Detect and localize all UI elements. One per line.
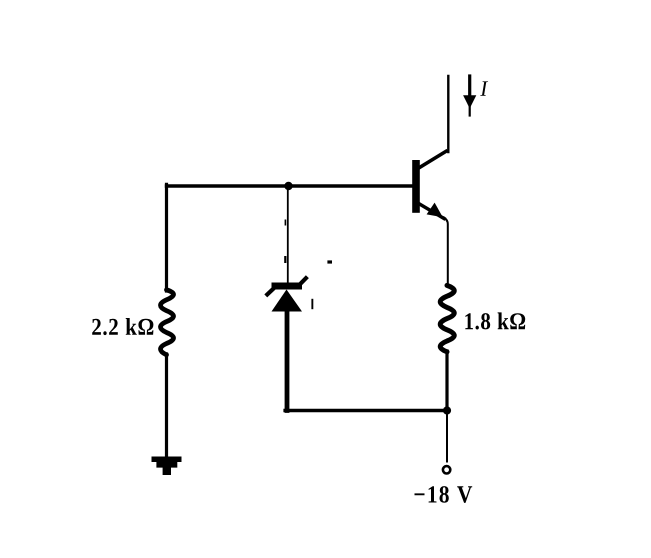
transistor Q1 collector diagonal bbox=[420, 151, 447, 167]
wire: small dash on zener wire lower bbox=[284, 256, 286, 263]
transistor Q1 emitter diagonal with arrow bbox=[420, 203, 445, 219]
resistor R1 2.2 kΩ (left zigzag) bbox=[161, 290, 174, 355]
wire: collector vertical up bbox=[447, 76, 449, 152]
wire: thin vertical from node A down to zener cathode bbox=[287, 186, 289, 284]
ground symbol (stepped solid chassis ground) bbox=[152, 457, 182, 476]
wire: thick vertical from zener anode down to bottom rail bbox=[285, 310, 290, 411]
wire: left vertical from R1 down to ground bbox=[165, 354, 168, 457]
wire: emitter lead down to R2 top bbox=[444, 218, 448, 287]
artifact: small dash above-right of zener bbox=[327, 260, 332, 263]
wire: vertical from node B down to supply terminal bbox=[446, 411, 448, 462]
terminal: open circle supply terminal bbox=[443, 466, 450, 473]
node A: junction dot on top rail above zener bbox=[284, 182, 292, 190]
wire: small ink speck on zener wire bbox=[285, 220, 287, 226]
value label: 2.2 kΩ bbox=[92, 318, 153, 335]
resistor R2 1.8 kΩ (right zigzag) bbox=[440, 285, 454, 351]
current label: I bbox=[480, 81, 488, 95]
transistor Q1 base bar bbox=[412, 160, 420, 213]
net label: -18 V supply bbox=[415, 486, 473, 503]
wire: vertical from R2 bottom to node B bbox=[445, 351, 448, 410]
value label: 1.8 kΩ bbox=[465, 312, 525, 329]
diode D1 zener anode triangle (pointing up) bbox=[272, 290, 303, 312]
current arrow I (downward) bbox=[463, 76, 476, 116]
node B: junction dot at bottom rail and emitter branch bbox=[443, 406, 451, 414]
wire: left vertical from top rail down to R1 bbox=[165, 184, 168, 291]
diode D1 zener cathode bar with bent tabs bbox=[267, 278, 306, 294]
artifact: small tick right of zener bbox=[311, 299, 313, 309]
wire: bottom horizontal rail from zener branch to node B bbox=[285, 409, 447, 413]
wire: top horizontal rail from left branch to transistor base bbox=[167, 184, 413, 187]
